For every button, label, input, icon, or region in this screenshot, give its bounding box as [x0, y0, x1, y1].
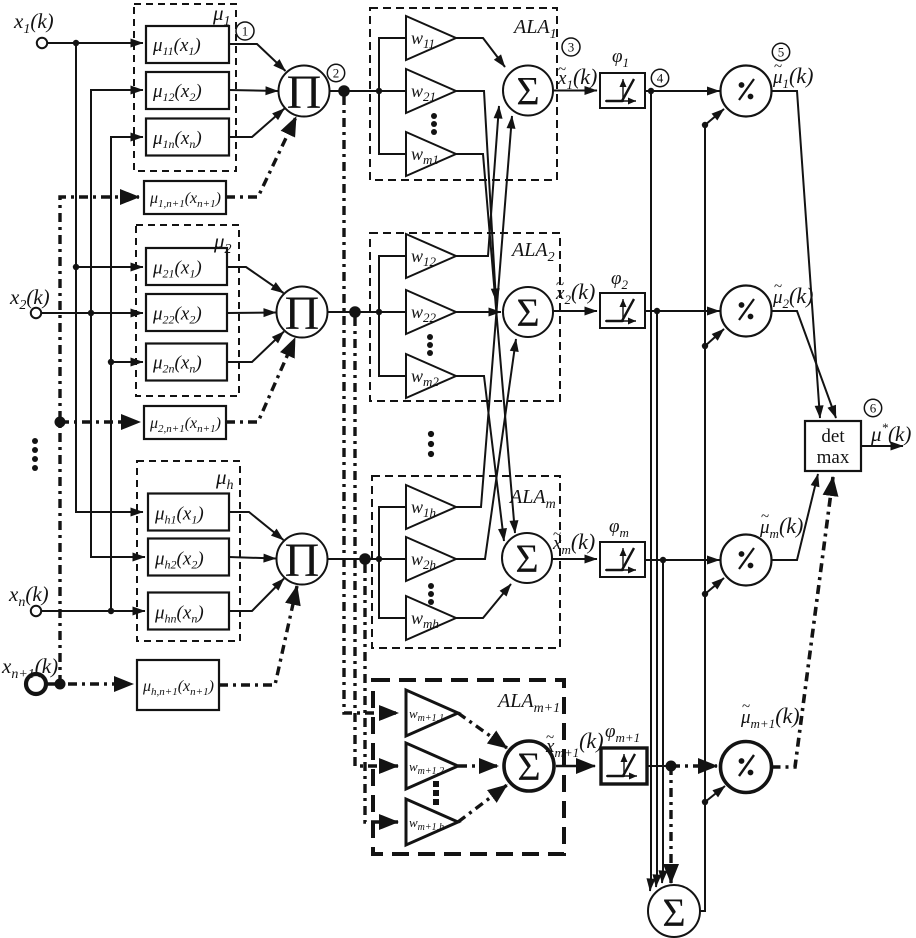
svg-text:Π: Π: [285, 287, 320, 340]
badge 6: [864, 399, 881, 416]
wire w11 to Sum1: [456, 38, 505, 67]
wire ALAm stub w2h: [379, 558, 406, 560]
wire w21 to Sum2 crossing: [456, 91, 496, 301]
wire x1 vertical bus: [76, 43, 143, 512]
svg-text:~: ~: [774, 59, 782, 75]
dash-dot bus Pih to wm+1,h: [365, 564, 398, 822]
amplifier wm+1,1 bold: [406, 690, 458, 736]
dashed box ALA1: [370, 8, 557, 180]
box mu12(x2): [146, 72, 229, 109]
op summation SumB: [648, 885, 700, 937]
badge 2: [327, 64, 344, 81]
svg-text:ALAm: ALAm: [508, 486, 556, 512]
svg-text:~: ~: [774, 279, 782, 295]
badge 1: [236, 22, 254, 40]
amplifier wm+1,2 bold: [406, 743, 458, 789]
amplifier w2h: [406, 537, 456, 581]
node feedback div4: [702, 799, 708, 805]
block phim+1 bold: [601, 748, 647, 784]
wire xn+1 bus to mu2n+1 dash-dot: [60, 420, 140, 423]
wire wm1 to Summ crossing: [456, 154, 515, 533]
svg-text:ALAm+1: ALAm+1: [496, 690, 560, 716]
svg-text:wm2: wm2: [411, 366, 439, 389]
svg-text:x1(k): x1(k): [13, 9, 54, 37]
op product Pi1: [279, 66, 330, 117]
svg-text:x2(k): x2(k): [9, 285, 50, 313]
node feedback div2: [702, 343, 708, 349]
svg-text:w1h: w1h: [411, 497, 436, 520]
wire xn bus to mu2n: [111, 361, 143, 363]
svg-text:1: 1: [242, 24, 249, 39]
op summation Summ+1 bold: [504, 741, 554, 791]
node after phim+1 bold: [666, 761, 677, 772]
svg-text:μh1(x1): μh1(x1): [154, 504, 204, 527]
svg-text:w2h: w2h: [411, 549, 436, 572]
wire Summ to phim: [552, 558, 597, 560]
op summation Summ: [502, 533, 552, 583]
wire muh2 to Pih: [229, 557, 276, 559]
svg-text:wm+1,1: wm+1,1: [409, 706, 444, 724]
wire x1 to mu11: [47, 42, 143, 44]
wire wm+1,h to Summ+1 dash-dot: [458, 785, 507, 822]
svg-text:6: 6: [870, 401, 877, 416]
wire wmh to Summ: [456, 584, 511, 618]
svg-text:wm+1,h: wm+1,h: [409, 815, 444, 833]
block phim: [600, 542, 645, 577]
wire phi2 down to SumB: [656, 311, 657, 887]
block phi1: [600, 73, 645, 108]
node ALA2 input: [376, 309, 382, 315]
svg-text:μ1: μ1: [212, 1, 231, 29]
svg-text:3: 3: [568, 40, 575, 55]
svg-text:4: 4: [657, 71, 664, 86]
svg-text:xn(k): xn(k): [8, 582, 49, 610]
node x1 bus to mu21: [73, 264, 79, 270]
svg-text:w12: w12: [411, 246, 437, 269]
wire div1 to detmax: [772, 91, 821, 418]
box mu22(x2): [146, 294, 227, 331]
wire mu21 to Pi2: [227, 267, 284, 293]
svg-text:w21: w21: [411, 81, 436, 104]
node ALAm input: [376, 556, 382, 562]
node after phi1: [648, 88, 654, 94]
svg-text:wm+1,2: wm+1,2: [409, 759, 444, 777]
svg-text:~: ~: [558, 62, 566, 78]
wire feedback to div2: [705, 329, 724, 346]
op division div1: [721, 66, 772, 117]
svg-text:φm+1: φm+1: [605, 721, 640, 745]
ellipsis between ALA2 ALAm: [428, 431, 434, 457]
svg-text:w22: w22: [411, 302, 437, 325]
ellipsis ALAm+1 bold: [433, 781, 439, 805]
box mu21(x1): [146, 248, 227, 285]
amplifier wm1: [406, 132, 456, 176]
wire feedback to div4: [705, 786, 725, 802]
dashed group box mu2: [136, 225, 239, 396]
node on xn wire: [108, 608, 114, 614]
svg-text:max: max: [817, 447, 850, 468]
svg-text:μ12(x2): μ12(x2): [152, 81, 202, 104]
svg-text:Σ: Σ: [516, 290, 539, 335]
input terminal xn+1 bold: [26, 674, 46, 694]
svg-text:μ21(x1): μ21(x1): [152, 258, 202, 281]
badge 4: [651, 69, 668, 86]
dash-dot bus Pi1 to wm+1,1: [344, 96, 398, 713]
box mu11(x1): [146, 26, 229, 63]
svg-text:μ11(x1): μ11(x1): [152, 35, 201, 58]
block detmax: [805, 421, 861, 471]
svg-text:~: ~: [761, 509, 769, 525]
wire xn to muhn: [41, 610, 145, 612]
wire x2 vertical bus: [91, 90, 145, 557]
svg-text:5: 5: [778, 45, 785, 60]
svg-text:Σ: Σ: [517, 744, 540, 789]
dashed group box muh: [137, 461, 240, 641]
wire mu12 to Pi1: [229, 90, 278, 91]
input terminal x1: [37, 38, 47, 48]
svg-text:μh2(x2): μh2(x2): [154, 549, 204, 572]
node Pih output bold: [359, 553, 371, 565]
node Pi2 output bold: [349, 306, 361, 318]
wire muh1 to Pih: [229, 512, 284, 540]
dashed box ALAm: [372, 476, 560, 648]
op summation Sum1: [503, 66, 553, 116]
svg-text:Σ: Σ: [662, 890, 685, 935]
badge 3: [562, 38, 580, 56]
wire wm+1,1 to Summ+1 dash-dot: [458, 713, 507, 748]
op division div4 bold: [721, 742, 772, 793]
wire phi1 down to SumB: [650, 91, 651, 891]
wire feedback to div1: [705, 109, 724, 125]
node on x2 wire: [88, 310, 94, 316]
svg-text:μ2n(xn): μ2n(xn): [152, 353, 202, 376]
wire ALA2 input bus: [379, 256, 406, 376]
svg-text:Σ: Σ: [516, 69, 539, 114]
box muh2(x2): [148, 539, 229, 576]
wire mu22 to Pi2: [227, 312, 276, 315]
svg-text:φ2: φ2: [611, 268, 629, 292]
svg-text:μ22(x2): μ22(x2): [152, 304, 202, 327]
block phi2: [600, 293, 645, 328]
svg-text:Σ: Σ: [515, 536, 538, 581]
wire phim+1 down to SumB dash-dot: [669, 766, 672, 883]
svg-text:ALA1: ALA1: [512, 16, 557, 42]
wire mu1n to Pi1: [229, 109, 285, 138]
node feedback div1: [702, 122, 708, 128]
wire Sum1 to phi1: [553, 90, 597, 92]
wire phim to div3: [645, 559, 720, 561]
wire Pi2 to ALA2: [328, 311, 380, 313]
thick dashed box ALAm+1: [373, 680, 564, 854]
box mu1,n+1(xn+1): [144, 181, 226, 214]
wire div2 to detmax: [772, 311, 837, 418]
amplifier wm+1,h bold: [406, 799, 458, 845]
wire mu11 to Pi1: [229, 44, 286, 71]
wire ALA1 input bus: [379, 38, 406, 154]
svg-text:μh: μh: [215, 465, 234, 493]
wire ALAm input bus: [379, 507, 406, 618]
svg-text:μ2: μ2: [213, 229, 232, 257]
wire x1 bus to mu21: [76, 266, 143, 268]
amplifier w12: [406, 234, 456, 278]
dashed group box mu1: [134, 4, 236, 171]
amplifier wmh: [406, 596, 456, 640]
wire muh,n+1 to Pih dash-dot: [219, 586, 297, 685]
node after phi2: [654, 308, 660, 314]
box mu2,n+1(xn+1): [144, 406, 226, 439]
svg-text:~: ~: [556, 277, 564, 293]
svg-text:ALA2: ALA2: [510, 239, 555, 265]
dashed box ALA2: [370, 233, 560, 401]
amplifier w11: [406, 16, 456, 60]
amplifier wm2: [406, 354, 456, 398]
wire mu1,n+1 to Pi1 dash-dot: [226, 117, 296, 197]
wire phim+1 to div4 dash-dot: [671, 764, 717, 767]
sum feedback vertical: [700, 125, 705, 911]
box muh,n+1(xn+1): [137, 660, 219, 710]
wire ALA1 stub w21: [379, 90, 406, 92]
svg-text:wmh: wmh: [411, 608, 439, 631]
amplifier w1h: [406, 485, 456, 529]
op division div3: [721, 535, 772, 586]
ellipsis ALA2: [427, 334, 433, 356]
svg-text:φm: φm: [609, 516, 629, 540]
wire div4 to detmax dash-dot: [772, 477, 834, 767]
svg-text:μhn(xn): μhn(xn): [154, 603, 204, 626]
node after phim: [660, 557, 666, 563]
wire xn+1 vertical bus dash-dot: [60, 197, 139, 684]
svg-text:μ1,n+1(xn+1): μ1,n+1(xn+1): [149, 190, 221, 210]
node xn bus to mu2n: [108, 359, 114, 365]
wire ALA2 stub w22: [379, 311, 406, 313]
svg-text:~: ~: [546, 730, 554, 746]
wire phim+1 out: [647, 765, 668, 767]
wire w12 to Sum1 crossing: [456, 106, 499, 256]
svg-text:Π: Π: [287, 66, 322, 119]
node on x1 wire: [73, 40, 79, 46]
node xn+1 bus to mu2n+1: [55, 417, 66, 428]
op division div2: [721, 286, 772, 337]
node xn+1: [55, 679, 66, 690]
wire mu2,n+1 to Pi2 dash-dot: [226, 338, 295, 422]
arrowhead x2 to mu12: [110, 89, 143, 91]
vertical ellipsis more inputs: [32, 438, 38, 471]
svg-text:~: ~: [553, 527, 561, 543]
wire Summ+1 to phim+1: [556, 765, 595, 768]
ellipsis ALA1: [431, 113, 437, 135]
input terminal xn: [31, 606, 41, 616]
wire phim down to SumB: [662, 560, 663, 883]
svg-text:2: 2: [333, 66, 340, 81]
node ALA1 input: [376, 88, 382, 94]
input terminal x2: [31, 308, 41, 318]
dash-dot bus Pi2 to wm+1,2: [355, 317, 398, 766]
wire w22 to Sum2: [456, 311, 501, 313]
node feedback div3: [702, 591, 708, 597]
wire mu2n to Pi2: [227, 332, 284, 363]
ellipsis ALAm: [428, 583, 434, 605]
wire muhn to Pih: [229, 579, 284, 612]
svg-text:φ1: φ1: [612, 46, 629, 70]
wire wm+1,2 to Summ+1 dash-dot: [458, 764, 498, 767]
svg-text:~: ~: [742, 699, 750, 715]
wire xn vertical bus: [111, 137, 143, 611]
wire w1h to Sum1 crossing: [456, 116, 512, 507]
node Pi1 output bold: [338, 85, 350, 97]
badge 5: [772, 43, 789, 60]
svg-text:det: det: [821, 426, 845, 447]
wire x2 to mu22: [41, 312, 143, 314]
op product Pih: [277, 534, 328, 585]
box mu1n(xn): [146, 119, 229, 156]
amplifier w22: [406, 290, 456, 334]
wire w2h to Sum2 crossing: [456, 339, 516, 559]
op summation Sum2: [503, 287, 553, 337]
wire detmax output: [861, 445, 903, 447]
svg-text:μ*(k): μ*(k): [870, 420, 911, 446]
wire div3 to detmax: [772, 474, 819, 560]
wire xn+1 to muhn+1 dash-dot: [46, 682, 133, 685]
box mu2n(xn): [146, 344, 227, 381]
svg-text:μ1n(xn): μ1n(xn): [152, 128, 202, 151]
box muhn(xn): [148, 593, 229, 630]
amplifier w21: [406, 69, 456, 113]
svg-text:w11: w11: [411, 28, 435, 51]
op product Pi2: [277, 287, 328, 338]
wire feedback to div3: [705, 578, 724, 594]
svg-text:μ2,n+1(xn+1): μ2,n+1(xn+1): [149, 415, 221, 435]
wire phi2 to div2: [645, 310, 720, 312]
box muh1(x1): [148, 494, 229, 531]
svg-text:wm1: wm1: [411, 144, 439, 167]
wire Pi1 to ALA1: [330, 90, 380, 92]
svg-text:Π: Π: [285, 534, 320, 587]
wire Sum2 to phi2: [553, 310, 597, 312]
wire Pih to ALAm: [328, 558, 380, 560]
wire phi1 to div1: [645, 90, 720, 92]
wire wm2 to Summ crossing: [456, 376, 504, 541]
arrowhead xn to mu1n: [115, 136, 143, 138]
svg-text:μh,n+1(xn+1): μh,n+1(xn+1): [142, 678, 214, 698]
